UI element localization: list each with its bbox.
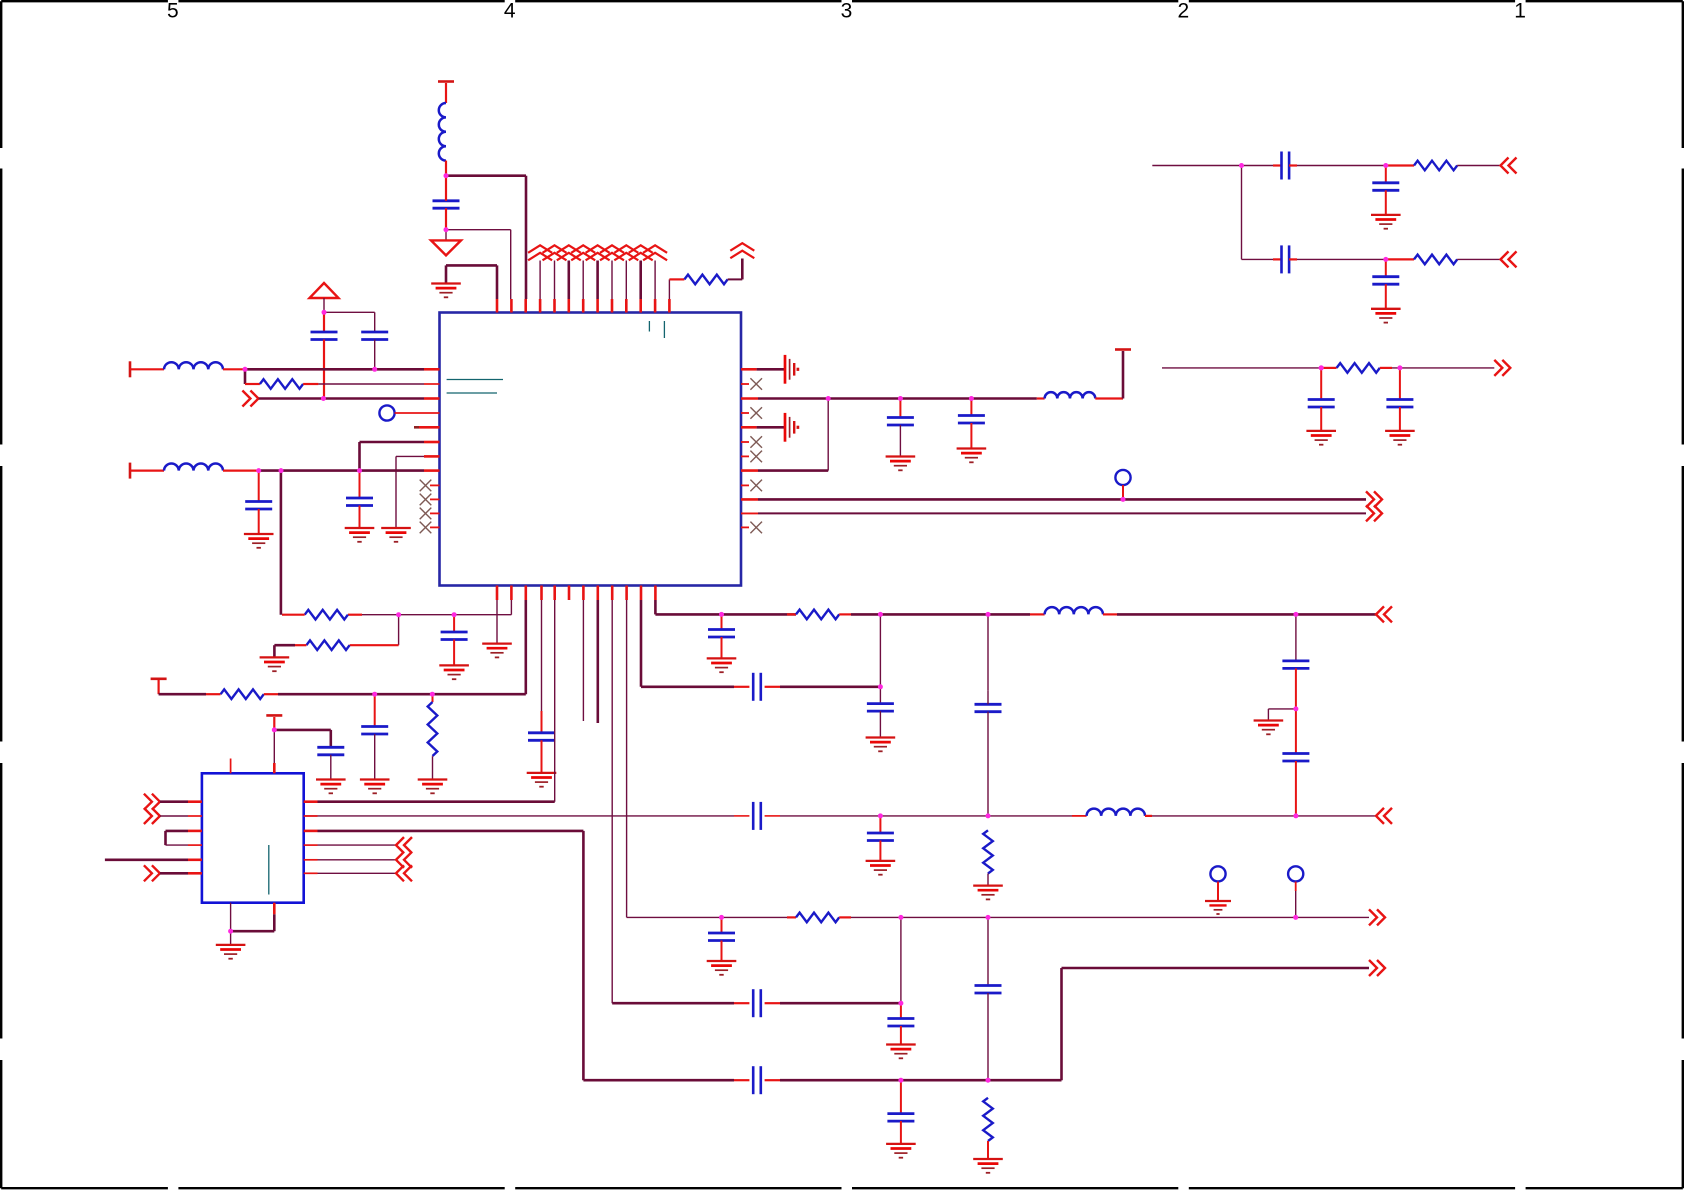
svg-text:2: 2 [1177, 0, 1189, 23]
svg-text:5: 5 [167, 0, 179, 23]
svg-text:1: 1 [1514, 0, 1526, 23]
svg-text:3: 3 [841, 0, 853, 23]
svg-text:4: 4 [504, 0, 516, 23]
